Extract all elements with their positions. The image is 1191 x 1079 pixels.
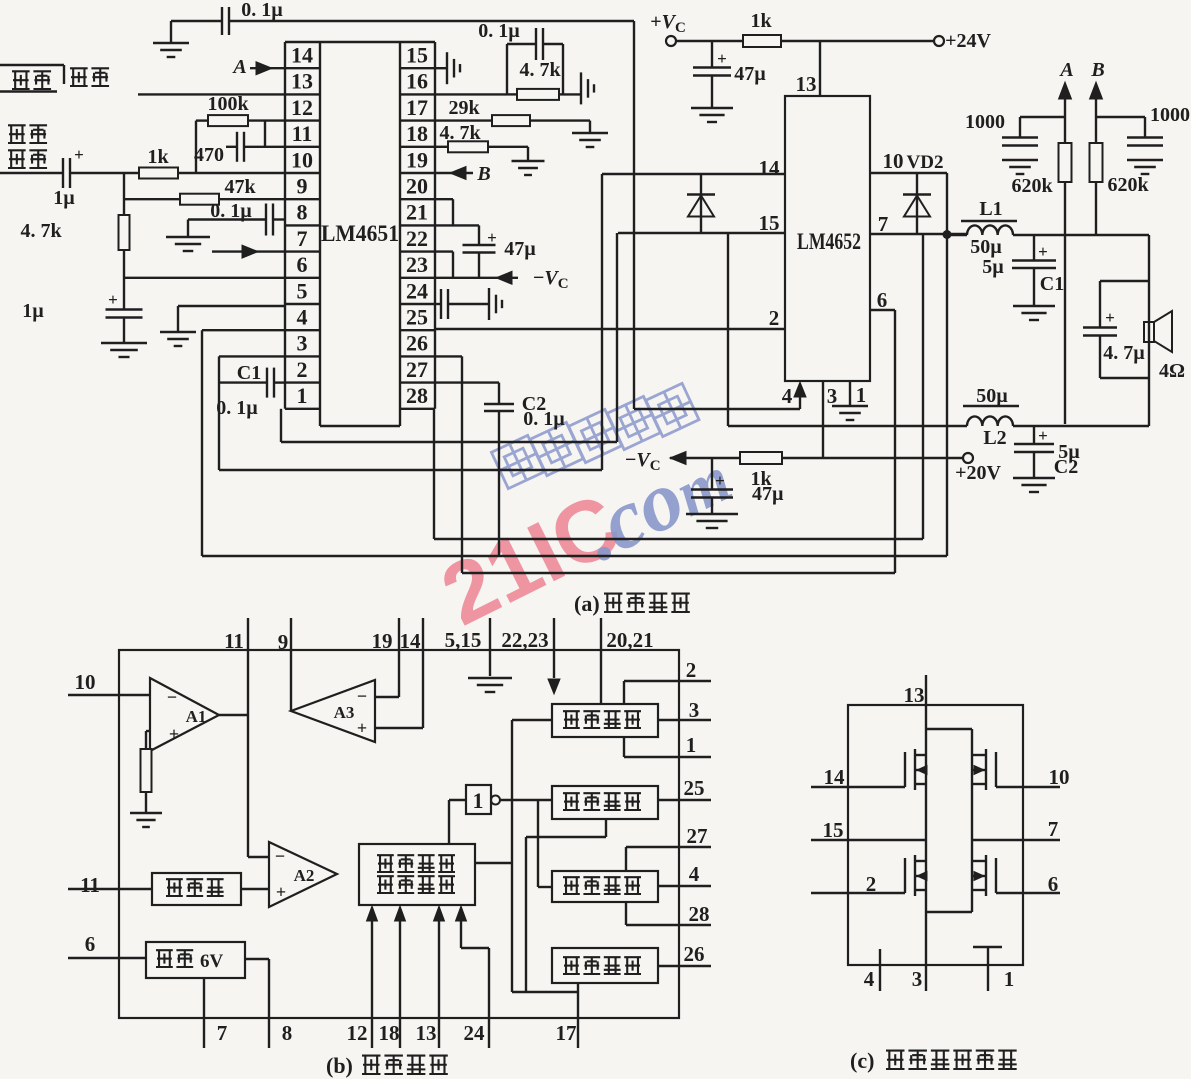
svg-text:16: 16: [406, 69, 428, 94]
svg-text:+20V: +20V: [955, 462, 1001, 484]
svg-text:L1: L1: [979, 198, 1002, 220]
svg-text:−: −: [167, 687, 177, 707]
svg-text:5µ: 5µ: [982, 256, 1004, 278]
svg-text:23: 23: [406, 252, 428, 277]
svg-text:L2: L2: [983, 427, 1006, 449]
svg-text:3: 3: [689, 698, 700, 722]
svg-text:A: A: [231, 56, 246, 78]
svg-text:+: +: [1038, 242, 1048, 261]
svg-text:1: 1: [297, 383, 308, 408]
svg-text:2: 2: [686, 658, 697, 682]
svg-text:4: 4: [864, 967, 875, 991]
svg-text:21: 21: [406, 200, 428, 225]
svg-text:22: 22: [406, 226, 428, 251]
svg-text:24: 24: [406, 278, 428, 303]
svg-text:1000: 1000: [1150, 104, 1190, 126]
svg-text:3: 3: [297, 331, 308, 356]
svg-text:7: 7: [1048, 817, 1059, 841]
svg-text:1µ: 1µ: [53, 187, 75, 209]
svg-text:10: 10: [883, 149, 904, 173]
svg-text:+: +: [108, 290, 118, 309]
svg-text:4: 4: [297, 305, 308, 330]
svg-text:6: 6: [1048, 872, 1059, 896]
svg-text:A3: A3: [334, 703, 355, 722]
svg-text:3: 3: [912, 967, 923, 991]
svg-text:2: 2: [769, 306, 780, 330]
svg-text:C2: C2: [1054, 456, 1078, 478]
svg-text:−: −: [357, 686, 367, 706]
svg-text:(b): (b): [326, 1053, 353, 1078]
svg-text:10: 10: [75, 670, 96, 694]
svg-text:4. 7k: 4. 7k: [519, 59, 561, 81]
svg-text:15: 15: [406, 43, 428, 68]
svg-text:14: 14: [824, 765, 846, 789]
svg-text:1µ: 1µ: [22, 300, 44, 322]
svg-text:+: +: [717, 49, 727, 68]
svg-text:+: +: [169, 724, 179, 744]
svg-text:0. 1µ: 0. 1µ: [478, 20, 520, 42]
svg-text:(c): (c): [850, 1048, 874, 1073]
svg-text:27: 27: [687, 824, 708, 848]
svg-text:14: 14: [759, 156, 781, 180]
svg-text:5,15: 5,15: [445, 628, 482, 652]
svg-text:28: 28: [689, 902, 710, 926]
svg-text:470: 470: [194, 144, 224, 166]
svg-text:6: 6: [85, 932, 96, 956]
svg-text:22,23: 22,23: [501, 628, 548, 652]
svg-text:47k: 47k: [224, 176, 256, 198]
svg-text:15: 15: [823, 818, 844, 842]
svg-text:C1: C1: [1040, 273, 1064, 295]
svg-text:−: −: [275, 846, 285, 866]
svg-text:11: 11: [224, 629, 244, 653]
svg-text:1: 1: [473, 788, 484, 813]
svg-text:1k: 1k: [147, 146, 169, 168]
svg-text:28: 28: [406, 383, 428, 408]
svg-text:6: 6: [297, 252, 308, 277]
svg-text:1: 1: [856, 383, 867, 407]
svg-text:C1: C1: [237, 362, 261, 384]
svg-text:A2: A2: [294, 866, 315, 885]
svg-text:14: 14: [291, 43, 313, 68]
svg-text:A1: A1: [186, 707, 207, 726]
svg-text:26: 26: [406, 331, 428, 356]
svg-text:25: 25: [406, 305, 428, 330]
svg-text:17: 17: [556, 1021, 577, 1045]
svg-text:12: 12: [291, 95, 313, 120]
svg-text:100k: 100k: [207, 93, 249, 115]
svg-text:VD2: VD2: [907, 152, 944, 173]
svg-text:2: 2: [866, 872, 877, 896]
svg-text:29k: 29k: [448, 97, 480, 119]
svg-text:+: +: [1038, 426, 1048, 445]
svg-text:47µ: 47µ: [734, 63, 766, 85]
svg-text:+: +: [1105, 308, 1115, 327]
svg-text:10: 10: [291, 147, 313, 172]
svg-text:17: 17: [406, 95, 428, 120]
svg-text:13: 13: [904, 683, 925, 707]
svg-text:2: 2: [297, 357, 308, 382]
svg-text:18: 18: [379, 1021, 400, 1045]
svg-text:4: 4: [782, 384, 793, 408]
svg-text:+: +: [357, 718, 367, 738]
svg-text:3: 3: [827, 384, 838, 408]
svg-text:9: 9: [297, 174, 308, 199]
svg-text:0. 1µ: 0. 1µ: [216, 397, 258, 419]
svg-text:8: 8: [282, 1021, 293, 1045]
svg-text:5: 5: [297, 278, 308, 303]
svg-text:9: 9: [278, 630, 289, 654]
svg-text:6V: 6V: [200, 951, 224, 972]
svg-text:13: 13: [796, 72, 817, 96]
svg-text:1000: 1000: [965, 111, 1005, 133]
svg-text:27: 27: [406, 357, 428, 382]
svg-text:+: +: [487, 228, 497, 247]
svg-text:4. 7k: 4. 7k: [20, 220, 62, 242]
svg-text:6: 6: [877, 288, 888, 312]
svg-text:7: 7: [297, 226, 308, 251]
svg-text:50µ: 50µ: [976, 385, 1008, 407]
svg-text:+: +: [715, 471, 725, 490]
svg-text:1: 1: [1004, 967, 1015, 991]
svg-text:(a): (a): [574, 591, 600, 616]
svg-text:14: 14: [400, 629, 422, 653]
svg-text:0. 1µ: 0. 1µ: [523, 408, 565, 430]
svg-text:15: 15: [759, 211, 780, 235]
svg-text:B: B: [476, 163, 490, 185]
svg-text:A: A: [1058, 59, 1073, 81]
svg-text:10: 10: [1049, 765, 1070, 789]
svg-text:620k: 620k: [1107, 174, 1149, 196]
svg-text:24: 24: [464, 1021, 486, 1045]
svg-text:20,21: 20,21: [606, 628, 653, 652]
svg-text:1k: 1k: [750, 468, 772, 490]
svg-text:620k: 620k: [1011, 175, 1053, 197]
svg-text:7: 7: [217, 1021, 228, 1045]
svg-text:13: 13: [416, 1021, 437, 1045]
svg-text:B: B: [1090, 59, 1104, 81]
svg-text:+: +: [74, 145, 84, 164]
svg-text:20: 20: [406, 174, 428, 199]
svg-text:LM4651: LM4651: [321, 221, 399, 246]
svg-text:19: 19: [406, 147, 428, 172]
svg-text:4Ω: 4Ω: [1159, 360, 1185, 382]
svg-text:50µ: 50µ: [970, 236, 1002, 258]
svg-text:LM4652: LM4652: [797, 229, 861, 254]
svg-text:1k: 1k: [750, 10, 772, 32]
svg-text:4: 4: [689, 862, 700, 886]
svg-text:4. 7µ: 4. 7µ: [1103, 342, 1145, 364]
svg-text:+24V: +24V: [945, 30, 991, 52]
svg-text:18: 18: [406, 121, 428, 146]
svg-text:12: 12: [347, 1021, 368, 1045]
svg-text:19: 19: [372, 629, 393, 653]
svg-text:26: 26: [684, 942, 705, 966]
svg-text:11: 11: [80, 873, 100, 897]
svg-text:4. 7k: 4. 7k: [439, 122, 481, 144]
svg-text:0. 1µ: 0. 1µ: [241, 0, 283, 21]
svg-text:+: +: [276, 882, 286, 902]
svg-text:7: 7: [878, 212, 889, 236]
svg-text:8: 8: [297, 200, 308, 225]
svg-text:47µ: 47µ: [504, 238, 536, 260]
svg-text:13: 13: [291, 69, 313, 94]
svg-text:25: 25: [684, 776, 705, 800]
svg-text:11: 11: [292, 121, 313, 146]
svg-text:1: 1: [686, 733, 697, 757]
